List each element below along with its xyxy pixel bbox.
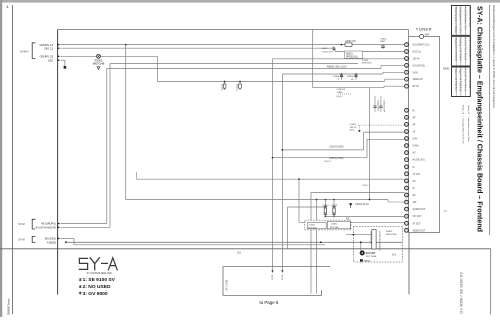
junction row D: [65, 241, 67, 243]
svg-text:45 (GRUPU): 45 (GRUPU): [41, 221, 56, 225]
svg-text:2: NO USED: 2: NO USED: [83, 284, 111, 290]
bend to pin5: [382, 72, 384, 74]
svg-text:Seiten *4 - *: table Basic Se: Seiten *4 - *: table Basic Service Man.: [467, 105, 470, 142]
svg-text:68K(1/164): 68K(1/164): [386, 234, 397, 236]
svg-text:SY-M: SY-M: [19, 239, 25, 242]
vertical x272: [272, 59, 274, 270]
tuner pin 24: [405, 221, 422, 225]
svg-text:IVF OUT: IVF OUT: [413, 216, 423, 218]
tuner pin 15: [405, 158, 425, 162]
tuner pin 13: [405, 144, 419, 148]
wire y74 to pin5: [282, 73, 383, 75]
svg-text:5.8 (GRUPU 12): 5.8 (GRUPU 12): [413, 45, 430, 47]
svg-text:Oszillogramme Nr. 1-14 a: Oszillogramme Nr. 1-14 a: [459, 7, 462, 34]
component C3308: [333, 73, 343, 81]
junction row1 x125: [125, 44, 127, 46]
label GV9000: [79, 291, 108, 297]
junction x369 y199: [369, 199, 371, 201]
svg-text:A-20 TB-1 N-A 4-20: A-20 TB-1 N-A 4-20: [468, 68, 471, 89]
vertical x110: [109, 64, 111, 228]
wire y199: [126, 199, 388, 201]
svg-text:L3003 (1T): L3003 (1T): [345, 41, 356, 43]
right margin rule upper: [489, 5, 491, 235]
SY-A heading: [79, 258, 117, 270]
wire DIG stub: [61, 59, 65, 61]
wire y63.6: [110, 63, 358, 65]
svg-text:K2: K2: [346, 216, 350, 220]
wire DIG12 to pin2: [335, 51, 405, 53]
wire K1 input: [346, 234, 372, 236]
tuner pin 16: [405, 165, 415, 169]
svg-text:D-1 A-17 TB-1 79-A N: D-1 A-17 TB-1 79-A N: [463, 68, 466, 91]
svg-text:SY-A: Chassisplatte – Empfangs: SY-A: Chassisplatte – Empfangseinheit / …: [476, 6, 485, 232]
vertical x367: [366, 139, 368, 157]
svg-text:Seiten A-14 P304 S14: Seiten A-14 P304 S14: [454, 68, 457, 91]
cap C3301 sym: [332, 46, 335, 51]
tuner pin 3: [405, 57, 420, 61]
arrow row2: [58, 47, 61, 49]
svg-text:3302/1700 (18V)/164: 3302/1700 (18V)/164: [378, 231, 380, 251]
svg-text:A (M25): A (M25): [47, 240, 56, 244]
page exit arrow x272: [271, 270, 274, 280]
wire y157.7: [273, 157, 368, 159]
svg-text:TUNER: TUNER: [416, 26, 432, 31]
vertical x299: [298, 179, 300, 222]
junction buffer: [360, 241, 362, 243]
tuner pin 17: [405, 172, 421, 176]
svg-text:330 1/2: 330 1/2: [324, 161, 332, 163]
wire to pin4: [381, 64, 405, 66]
svg-text:-240C: -240C: [322, 48, 328, 50]
wire bus y81: [157, 81, 384, 83]
svg-text:M: M: [413, 188, 415, 190]
wire to pin7: [384, 85, 405, 87]
svg-text:C3307 A: C3307 A: [337, 88, 346, 91]
wire GRUPU12 to pin1: [61, 44, 405, 46]
svg-text:Pages *4 - *: essentials Main: Pages *4 - *: essentials Main Service M.: [461, 105, 464, 144]
svg-text:3: GV 9000: 3: GV 9000: [83, 291, 108, 297]
svg-text:(B-2): (B-2): [350, 130, 355, 132]
tuner pin 9: [405, 116, 416, 120]
label SE9100: [79, 277, 116, 283]
left margin rule: [11, 5, 13, 314]
svg-text:Plattenabbildungen und Schaltp: Plattenabbildungen und Schaltpläne / Lay…: [492, 5, 496, 109]
svg-text:6807/1/48: 6807/1/48: [93, 62, 105, 66]
wire DIG12 drop: [334, 48, 336, 51]
svg-text:A-17 TB-1 N-A 4-20: A-17 TB-1 N-A 4-20: [468, 38, 471, 59]
DIG termination pad: [64, 66, 67, 69]
resistor block R3301: [345, 51, 363, 58]
wire DIG drop: [64, 60, 66, 66]
vertical x311 to page6: [310, 192, 312, 293]
wire to pin6: [385, 78, 405, 80]
tuner pin 18: [405, 179, 416, 183]
inset detail box: [223, 267, 330, 296]
wire row A: [61, 223, 107, 225]
svg-text:TV 12V: TV 12V: [413, 174, 421, 176]
svg-text:GRUPU 12: GRUPU 12: [40, 43, 54, 47]
capacitor C3302: [350, 124, 405, 132]
svg-text:C3313: C3313: [380, 38, 387, 40]
buffer pad: [360, 259, 371, 262]
tuner pin 5: [405, 70, 419, 74]
svg-text:D-1 A-17 TB-1 79-A: D-1 A-17 TB-1 79-A: [468, 7, 471, 28]
arrow rowC: [58, 237, 61, 239]
svg-text:R3001: R3001: [346, 53, 353, 55]
svg-text:GRUPU 25: GRUPU 25: [40, 55, 54, 59]
junction row D x320: [320, 241, 322, 243]
component C3318 lower: [322, 199, 329, 218]
junction K1 input: [353, 234, 355, 236]
svg-text:(18P/16V): (18P/16V): [362, 62, 372, 64]
svg-text:MOD.: MOD.: [443, 67, 450, 71]
svg-text:SY-CHASSIS NEW-VER: SY-CHASSIS NEW-VER: [87, 272, 112, 275]
svg-text:SY-M: SY-M: [19, 223, 25, 226]
svg-text:Abgleich A-14 P304 S1: Abgleich A-14 P304 S1: [454, 38, 457, 62]
svg-text:IN 5/15E: IN 5/15E: [308, 227, 317, 229]
wire GRUPU25 a: [61, 55, 97, 57]
svg-text:C3301 (2P): C3301 (2P): [322, 52, 333, 54]
svg-text:D-1 A-17 TB-1 79-A N: D-1 A-17 TB-1 79-A N: [463, 38, 466, 61]
svg-text:4.: 4.: [6, 4, 9, 9]
svg-text:GRUNDIG Service: GRUNDIG Service: [7, 298, 11, 315]
wire row B: [61, 226, 111, 228]
svg-text:DIG: DIG: [48, 58, 53, 62]
tuner pin 6: [405, 77, 423, 81]
svg-text:K1: K1: [393, 252, 397, 256]
wire row C: [61, 238, 75, 240]
bend to pin4: [380, 65, 382, 68]
stub x136: [136, 172, 138, 179]
svg-text:(D-4): (D-4): [337, 96, 342, 98]
page exit arrow x282: [281, 270, 284, 280]
tuner pin 2: [405, 50, 422, 54]
svg-text:C3316: C3316: [237, 83, 239, 90]
wire y207: [288, 206, 326, 208]
table section 2: [452, 36, 472, 66]
tuner pin 4: [405, 64, 425, 68]
tuner pin 1: [405, 43, 430, 47]
wire drop x157: [156, 56, 158, 81]
wire GRUPU25 b: [100, 55, 157, 57]
svg-text:AF 1 (GB): AF 1 (GB): [226, 280, 229, 291]
svg-text:5+5V: 5+5V: [413, 72, 419, 74]
junction x282 y149: [282, 149, 284, 151]
svg-text:AT OUT: AT OUT: [413, 222, 422, 225]
vertical x369: [369, 88, 371, 200]
svg-text:5 AV: 5 AV: [413, 138, 418, 141]
page top scan edge: [0, 0, 500, 3]
vertical x287: [287, 207, 289, 249]
long wire y179: [137, 178, 405, 180]
tuner pin 22: [405, 207, 426, 211]
svg-text:MU (DIG): MU (DIG): [45, 237, 56, 241]
top bus drop to tuner: [408, 30, 410, 37]
tuner pin 14: [405, 151, 416, 155]
svg-text:HI (DIG 5V): HI (DIG 5V): [413, 160, 425, 162]
wire to pin y202: [388, 201, 405, 203]
page left scan edge: [0, 0, 2, 317]
capacitor C3307: [337, 88, 353, 98]
svg-text:C3317: C3317: [362, 185, 369, 187]
junction x272 y157: [272, 157, 274, 159]
wire to pin y139: [367, 138, 405, 140]
wire y192: [311, 191, 405, 193]
svg-text:5.8 (GR 25): 5.8 (GR 25): [413, 65, 425, 67]
svg-text:C3302: C3302: [350, 124, 357, 126]
svg-text:IN 5/15E: IN 5/15E: [330, 227, 339, 229]
wire y222 to pin: [299, 221, 405, 223]
vertical x312: [312, 30, 314, 88]
main bus vertical: [57, 30, 59, 295]
ANT terminal: [419, 34, 430, 39]
wire y58.8 to pin3: [273, 58, 405, 60]
svg-text:C3303 5V6: C3303 5V6: [377, 100, 379, 112]
svg-text:(PR01/16L): (PR01/16L): [346, 56, 358, 58]
tuner pin 12: [405, 137, 418, 141]
svg-text:C3312: C3312: [222, 83, 224, 90]
junction L3303: [341, 44, 343, 46]
svg-text:SY-M-4: SY-M-4: [20, 50, 29, 54]
svg-text:VIDEO OUT: VIDEO OUT: [413, 230, 426, 232]
inductor L3303: [345, 41, 356, 47]
svg-text:MA/BK: MA/BK: [364, 259, 371, 262]
tuner pin 11: [405, 130, 416, 134]
vertical x316 to page6: [316, 200, 318, 294]
bend to pin: [387, 200, 389, 203]
arrow row4: [58, 59, 61, 61]
wire row D long: [66, 241, 403, 243]
table section 3: [452, 67, 472, 97]
arrow rowA: [58, 222, 61, 224]
arrow row3: [58, 55, 61, 57]
svg-text:to Page 6: to Page 6: [260, 300, 279, 305]
svg-text:BUFFER: BUFFER: [366, 252, 376, 255]
wire y87.7: [313, 87, 384, 89]
buffer transistor: [360, 251, 377, 258]
wire row C drop: [73, 239, 75, 245]
input bracket SY-M: [32, 43, 35, 59]
arrow row1: [58, 44, 61, 46]
svg-text:GV 9000 / SE 9100 SV: GV 9000 / SE 9100 SV: [460, 271, 464, 314]
svg-text:1: SE 9100 SV: 1: SE 9100 SV: [83, 277, 116, 283]
vertical x363: [363, 132, 365, 150]
tuner block outline: [409, 37, 440, 233]
svg-text:C3308: C3308: [333, 76, 340, 78]
table section 1: [452, 6, 472, 36]
svg-text:C3318 (100N): C3318 (100N): [329, 147, 344, 149]
filter R3303 symbol: [97, 54, 101, 58]
svg-text:Oszillogr. A-14 P304 4-: Oszillogr. A-14 P304 4-: [459, 38, 462, 62]
svg-text:12V+A: 12V+A: [413, 58, 420, 61]
wire y216 to pin: [325, 215, 404, 217]
wire video out drop: [408, 233, 410, 295]
svg-text:Abgleichpunkte u. Meßger: Abgleichpunkte u. Meßger: [454, 7, 457, 34]
svg-text:3.3NF: 3.3NF: [337, 92, 344, 94]
capacitor C3312: [222, 82, 226, 91]
svg-text:C3319 (100N): C3319 (100N): [329, 158, 344, 160]
svg-text:R3304: R3304: [347, 76, 354, 78]
component C3319 lower: [331, 199, 338, 218]
bend pin7: [383, 86, 385, 88]
diode J3451: [307, 223, 326, 230]
tuner pin 23: [405, 214, 423, 218]
IC box in K1: [370, 230, 381, 252]
svg-text:Pages A-14 P304 4-20: Pages A-14 P304 4-20: [459, 68, 462, 92]
tuner pin 25: [405, 228, 426, 232]
wire bend to pin6: [384, 79, 386, 81]
tuner pin 7: [405, 84, 419, 88]
vertical x125: [125, 45, 127, 200]
svg-text:42 (SY-M NICHT): 42 (SY-M NICHT): [36, 226, 56, 230]
wire to buffer: [360, 242, 362, 250]
tuner pin 8: [405, 108, 415, 112]
capacitor C3303: [373, 96, 378, 112]
wire DIG12: [61, 47, 336, 49]
svg-text:AGC 1A: AGC 1A: [413, 51, 422, 54]
wire y68.4: [107, 67, 381, 69]
wire to pin y132: [364, 131, 405, 133]
tuner pin 21: [405, 200, 418, 204]
junction: [239, 81, 241, 83]
svg-text:M: M: [413, 167, 415, 169]
tuner pin 20: [405, 193, 417, 197]
tuner pin 10: [405, 123, 416, 127]
svg-text:18X 1P: 18X 1P: [350, 127, 358, 129]
svg-text:R3302 (.5K) 1/1G.*: R3302 (.5K) 1/1G.*: [327, 66, 347, 69]
diode J3450: [328, 221, 351, 229]
svg-text:J3450: J3450: [331, 224, 338, 226]
component R3304: [347, 73, 357, 81]
svg-text:36 5V: 36 5V: [271, 275, 273, 281]
tuner pin 19: [405, 186, 415, 190]
input bracket 3: [32, 236, 35, 242]
top bus wire: [58, 29, 409, 31]
svg-text:AC: AC: [413, 152, 417, 155]
arrow rowB: [58, 226, 61, 228]
capacitor C3313: [380, 38, 387, 49]
junction: [224, 81, 226, 83]
wire y149.9: [281, 149, 364, 151]
svg-text:ANT: ANT: [425, 34, 430, 37]
svg-text:J3452 IN4148: J3452 IN4148: [370, 231, 372, 245]
svg-text:AC: AC: [413, 180, 417, 183]
relay box K1: [354, 227, 403, 263]
svg-text:DIG 12: DIG 12: [44, 47, 53, 51]
svg-text:C33(4) I3-1A: C33(4) I3-1A: [355, 203, 369, 206]
input bracket 2: [32, 219, 35, 229]
svg-text:35 5V: 35 5V: [281, 275, 283, 281]
ground C3314: [349, 203, 352, 208]
junction y179 x299: [298, 178, 300, 180]
wire row C y245: [74, 244, 325, 246]
label NOUSED: [79, 284, 111, 290]
vertical x282: [281, 74, 283, 270]
svg-text:R3451: R3451: [386, 231, 393, 233]
junction x316 y199: [316, 199, 318, 201]
svg-text:RF IN: RF IN: [413, 86, 419, 88]
svg-text:VIDEO IN: VIDEO IN: [413, 79, 423, 81]
capacitor C3304: [379, 96, 384, 113]
ground R3303: [97, 67, 100, 70]
relay box K2: [305, 216, 351, 230]
svg-text:(18P): (18P): [380, 41, 386, 43]
wire to pin5 end: [383, 71, 405, 73]
svg-text:JAF: JAF: [413, 201, 418, 204]
svg-text:J3451: J3451: [309, 224, 316, 226]
svg-text:5 AVA: 5 AVA: [413, 145, 420, 148]
right margin rule lower: [490, 249, 492, 315]
vertical x107: [106, 68, 108, 223]
svg-text:3577 500M: 3577 500M: [366, 256, 377, 258]
svg-text:AUDIO OUT: AUDIO OUT: [413, 208, 426, 211]
capacitor C3316: [237, 82, 241, 91]
page divider rule: [0, 248, 491, 250]
svg-text:A-14 P304 S14-1 T8-1: A-14 P304 S14-1 T8-1: [463, 7, 466, 31]
svg-text:C3304 100P: C3304 100P: [383, 100, 385, 113]
svg-text:M: M: [413, 110, 415, 112]
